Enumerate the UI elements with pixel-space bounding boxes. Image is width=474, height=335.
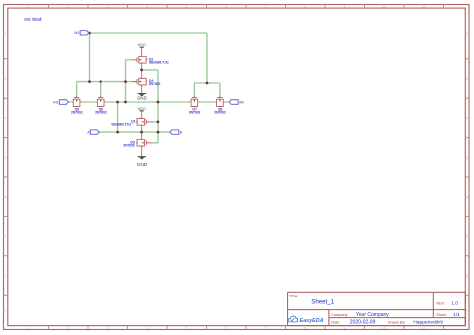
svg-text:VCC: VCC [138,106,147,111]
svg-text:EasyEDA: EasyEDA [300,318,324,324]
svg-text:2N7002: 2N7002 [123,144,135,148]
svg-text:GND: GND [137,162,148,167]
svg-text:2N7002: 2N7002 [214,110,226,114]
svg-text:Drawn By:: Drawn By: [388,321,406,325]
svg-text:A: A [5,32,7,36]
svg-text:E: E [466,195,468,199]
svg-text:F: F [466,234,468,238]
svg-text:Q1: Q1 [131,120,136,124]
svg-text:1.0: 1.0 [451,300,458,306]
svg-text:2020-02-09: 2020-02-09 [350,319,376,325]
svg-text:H: H [466,309,468,313]
svg-text:H: H [5,309,7,313]
svg-text:E: E [5,195,7,199]
svg-text:D: D [5,156,8,160]
svg-text:VCC: VCC [138,42,147,47]
svg-text:A: A [466,32,468,36]
svg-text:10: 10 [382,5,386,9]
svg-text:REV:: REV: [436,301,444,305]
svg-text:B: B [5,77,7,81]
svg-text:11: 11 [422,5,425,9]
svg-text:2N7002: 2N7002 [189,110,201,114]
svg-text:TITLE:: TITLE: [289,294,298,298]
svg-text:10: 10 [382,326,386,330]
svg-text:2N7002: 2N7002 [71,110,83,114]
svg-text:Sheet_1: Sheet_1 [311,299,334,306]
svg-text:11: 11 [422,326,425,330]
svg-text:1/1: 1/1 [453,312,460,318]
svg-text:no test: no test [24,17,42,23]
svg-text:Date:: Date: [331,320,340,324]
svg-text:Your Company: Your Company [356,312,389,318]
svg-text:SBSS84,T1G: SBSS84,T1G [149,61,169,65]
svg-text:W2: W2 [239,100,244,104]
svg-text:C: C [5,116,8,120]
svg-text:W1: W1 [74,31,79,35]
svg-text:IN1: IN1 [53,100,58,104]
svg-text:2N7002: 2N7002 [149,82,161,86]
svg-text:Happeneddr9: Happeneddr9 [413,320,443,326]
svg-text:SBSS84,T1G: SBSS84,T1G [111,123,131,127]
svg-text:B: B [466,77,468,81]
svg-text:F: F [5,234,7,238]
svg-text:Company:: Company: [331,313,348,317]
svg-text:G: G [4,274,7,278]
svg-text:2N7002: 2N7002 [95,110,107,114]
svg-text:B: B [180,131,183,135]
svg-text:Sheet:: Sheet: [436,313,446,317]
